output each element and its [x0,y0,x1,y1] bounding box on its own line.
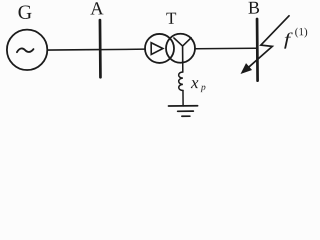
svg-text:G: G [18,2,33,24]
ground [169,106,198,117]
transformer T secondary winding circle [166,34,195,63]
wire coil to ground [182,91,184,106]
svg-text:(1): (1) [295,26,308,38]
wire generator to bus A [47,49,100,51]
delta symbol [151,43,163,55]
svg-text:f: f [284,30,293,49]
grounding reactor coil x_p [179,72,183,91]
svg-text:p: p [200,83,206,93]
neutral wire to grounding reactor [182,63,184,72]
generator G circle [7,29,48,70]
svg-text:B: B [248,0,260,18]
generator sine symbol [17,48,34,52]
fault symbol lightning arrow [241,16,289,73]
bus B [256,19,259,81]
transformer T primary winding circle [145,34,174,63]
bus A [99,20,102,77]
svg-text:A: A [90,0,104,20]
wire bus A to transformer T [100,48,145,50]
svg-text:T: T [166,9,177,28]
wire transformer T to bus B [195,47,257,50]
wye symbol [174,38,191,63]
svg-text:x: x [190,73,199,92]
